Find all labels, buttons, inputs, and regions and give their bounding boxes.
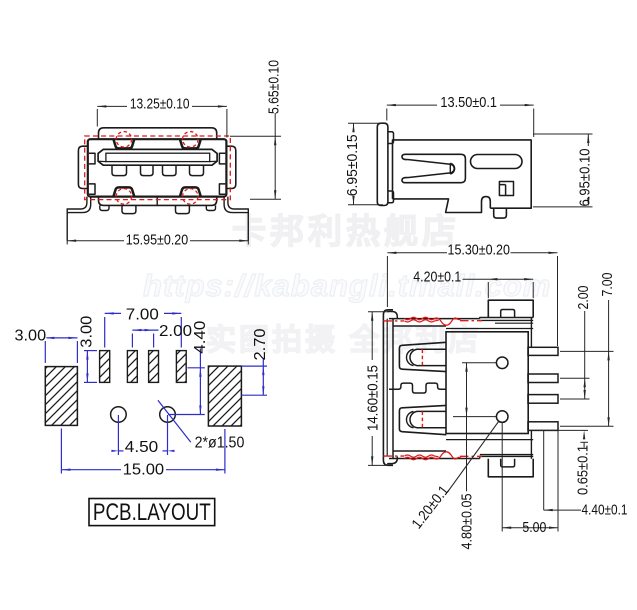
pcb dim 2.00 finger pitch: [131, 334, 133, 348]
svg-text:5.65±0.10: 5.65±0.10: [267, 60, 283, 114]
svg-text:4.20±0.1: 4.20±0.1: [413, 270, 461, 286]
svg-text:7.00: 7.00: [600, 273, 616, 297]
dimension 7.00 pins: [560, 350, 614, 352]
dimension 13.25 front width: [96, 109, 98, 127]
front view red circle top-right: [183, 132, 199, 148]
hole lower: [496, 411, 508, 423]
pcb layout label box: [89, 499, 215, 526]
pcb dim 3.00 pad width: [44, 341, 46, 363]
pin 4: [528, 422, 558, 431]
pcb dim 4.40: [188, 367, 205, 369]
front view left bracket wing: [67, 197, 87, 241]
side view bottom tab: [494, 208, 507, 218]
front view red outline: [85, 136, 231, 200]
pcb dim 4.50 hole pitch: [117, 415, 119, 455]
pin 2: [528, 374, 558, 383]
svg-text:6.95±0.10: 6.95±0.10: [578, 149, 594, 207]
bottom view latch spring lower: [399, 405, 446, 434]
pcb dim 3.00 finger height: [84, 350, 97, 352]
front view top contact bump right: [180, 139, 201, 148]
bottom view rear step upper: [480, 318, 533, 321]
side view hook detail: [499, 182, 513, 196]
pcb right pad: [208, 366, 241, 426]
dimension 4.80 hole pitch: [462, 362, 496, 364]
svg-text:14.60±0.15: 14.60±0.15: [365, 365, 381, 431]
dimension 6.95 side right: [533, 133, 593, 135]
dimension 13.50 side width: [386, 109, 388, 121]
bottom view rear step upper small tab: [501, 310, 515, 318]
front view contact 4: [190, 165, 204, 175]
svg-text:13.25±0.10: 13.25±0.10: [130, 96, 190, 112]
svg-text:4.40: 4.40: [192, 320, 209, 353]
side view slot: [471, 155, 523, 169]
pcb dim 2.70: [241, 365, 267, 367]
watermark: [143, 213, 551, 357]
front view outer shell: [88, 139, 227, 196]
front view red circle top-left: [116, 132, 131, 148]
bottom view rear block: [446, 332, 528, 434]
pcb hole left: [111, 407, 127, 423]
pcb finger pad 2: [127, 351, 137, 383]
front view right ear: [226, 146, 235, 188]
svg-text:https://kabangli.tmall.com: https://kabangli.tmall.com: [143, 268, 551, 303]
front view shell top tab: [99, 128, 217, 139]
pin 3: [528, 395, 558, 404]
bottom view latch spring upper: [399, 342, 446, 371]
svg-text:15.00: 15.00: [123, 461, 165, 478]
front view tongue inner face: [106, 153, 210, 161]
bottom view rear step lower small tab: [501, 459, 515, 467]
svg-text:实图拍摄 全邦利店: 实图拍摄 全邦利店: [206, 323, 481, 357]
bottom view flange plate: [383, 310, 393, 466]
svg-text:13.50±0.1: 13.50±0.1: [440, 95, 497, 111]
front view contact 1: [112, 165, 127, 175]
dimension 4.20 rear block: [487, 282, 489, 298]
front view red circle bottom-right: [183, 189, 199, 205]
front view right wall notch upper: [219, 153, 225, 164]
front view right bracket wing: [228, 197, 248, 241]
bottom view castellation: [389, 383, 446, 393]
front view housing foot right: [176, 205, 190, 213]
front view tongue corner bevels: [98, 160, 106, 162]
pcb finger pad 3: [149, 351, 159, 383]
svg-text:4.40±0.1: 4.40±0.1: [582, 503, 628, 519]
bottom view shell edges: [389, 318, 480, 320]
svg-text:2.00: 2.00: [576, 286, 592, 310]
dimension 6.95 side left: [348, 122, 383, 124]
pcb finger pad 4: [176, 351, 186, 383]
bottom view red centerline top: [383, 320, 482, 322]
front view bottom contact bump left: [114, 187, 135, 196]
dimension 15.30 overall: [386, 256, 388, 307]
pcb dim 15.00 pad pitch: [60, 429, 62, 474]
front view housing foot left: [122, 205, 136, 213]
front view bottom contact bump right: [180, 187, 201, 196]
svg-text:6.95±0.15: 6.95±0.15: [345, 134, 361, 196]
side view flange bump lower: [388, 191, 394, 203]
pcb finger pad 1: [100, 351, 110, 383]
svg-text:3.00: 3.00: [15, 327, 47, 344]
front view housing stub right: [206, 205, 215, 210]
svg-text:7.00: 7.00: [126, 307, 159, 324]
side view flange bump upper: [388, 132, 394, 144]
bottom view rear step lower: [480, 455, 533, 459]
front view contact 3: [163, 165, 177, 175]
svg-text:2.70: 2.70: [252, 328, 269, 360]
dimension 15.95 bracket width: [66, 214, 68, 245]
svg-text:4.80±0.05: 4.80±0.05: [460, 494, 476, 550]
svg-text:PCB.LAYOUT: PCB.LAYOUT: [93, 499, 211, 526]
svg-text:2*ø1.50: 2*ø1.50: [195, 434, 245, 451]
svg-text:15.30±0.20: 15.30±0.20: [448, 243, 510, 259]
front view housing stub left: [100, 205, 109, 210]
bottom view flange bump bottom: [387, 457, 397, 464]
front view left wall notch upper: [89, 153, 95, 164]
dimension 0.65 pin thickness: [528, 429, 588, 431]
side view front flange plate: [377, 123, 388, 205]
front view red circle bottom-left: [116, 189, 131, 205]
front view left ear: [78, 146, 87, 188]
pcb dim 7.00 finger pitch: [104, 317, 106, 348]
pcb hole label 2*dia1.50: [158, 400, 191, 442]
svg-text:0.65±0.1: 0.65±0.1: [576, 445, 592, 495]
dimension 5.00: [501, 422, 503, 531]
dimension 2.00 pins: [560, 377, 590, 379]
front view contact 2: [141, 165, 154, 175]
front view tongue outer: [98, 149, 217, 165]
pin 1: [528, 347, 558, 355]
front view top contact bump left: [114, 139, 135, 148]
svg-text:卡邦利热舰店: 卡邦利热舰店: [232, 213, 460, 251]
bottom view flange bump top: [387, 312, 397, 319]
svg-text:4.50: 4.50: [125, 439, 159, 456]
dimension 4.40 pin length: [543, 430, 545, 510]
side view retention spring: [408, 160, 451, 178]
bottom view red latch marks: [421, 349, 423, 365]
side view body outline: [393, 140, 532, 208]
bottom view red centerline bottom: [383, 455, 482, 457]
dimension 14.60 shell length: [368, 311, 388, 313]
front view right wall notch lower: [219, 184, 225, 194]
front view shell bottom tab: [99, 197, 217, 206]
svg-text:3.00: 3.00: [78, 315, 95, 347]
front view left wall notch lower: [89, 184, 95, 194]
svg-text:5.00: 5.00: [522, 520, 546, 536]
hole upper: [496, 357, 508, 369]
svg-text:2.00: 2.00: [159, 323, 192, 340]
svg-text:15.95±0.20: 15.95±0.20: [126, 233, 188, 249]
pcb left pad: [45, 367, 77, 426]
pcb hole right: [160, 407, 176, 423]
dimension 5.65 front height: [230, 135, 281, 137]
front view housing parting line: [156, 197, 158, 206]
dimension 1.20 hole leader: [448, 421, 499, 492]
